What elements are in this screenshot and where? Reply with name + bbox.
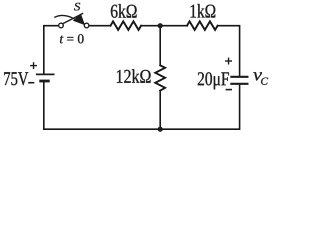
wire 6k to 1k through top node — [141, 25, 187, 27]
switch blade — [63, 13, 83, 23]
label 1kOhm — [191, 4, 216, 18]
capacitor C 20uF bottom plate — [230, 83, 248, 85]
resistor R 6k zigzag — [111, 21, 142, 30]
resistor R 12k zigzag vertical — [155, 65, 165, 90]
label vC — [253, 72, 268, 84]
battery V1 75V short plate — [39, 80, 49, 83]
label 20uF — [198, 72, 229, 89]
bottom wire to battery — [44, 82, 160, 129]
label 75V — [4, 72, 28, 85]
wire top-left corner to switch left terminal — [44, 26, 59, 74]
switch S — [54, 13, 89, 28]
wire switch right terminal to 6k resistor — [89, 25, 111, 27]
battery minus sign — [28, 82, 34, 84]
wire 1k to top-right corner down to capacitor — [218, 26, 240, 76]
wire 12k to bottom node — [159, 91, 161, 130]
capacitor plus sign — [225, 58, 232, 65]
switch left terminal circle — [59, 23, 64, 28]
label S — [74, 3, 80, 11]
label 12kOhm — [117, 69, 151, 83]
switch right terminal circle — [84, 23, 89, 28]
node top junction dot — [158, 23, 163, 28]
battery V1 75V long plate — [36, 73, 55, 75]
switch closing arc — [54, 15, 74, 18]
wire top node down to 12k resistor — [159, 26, 161, 66]
battery plus sign — [30, 62, 37, 69]
resistor R 1k zigzag — [187, 21, 218, 30]
label t = 0 — [60, 34, 84, 43]
capacitor C 20uF top plate — [230, 76, 248, 78]
node bottom junction dot — [158, 127, 163, 132]
wire capacitor to bottom-right corner — [160, 85, 239, 129]
capacitor minus sign — [226, 89, 232, 91]
label 6kOhm — [111, 4, 137, 18]
switch arrowhead — [73, 14, 85, 26]
